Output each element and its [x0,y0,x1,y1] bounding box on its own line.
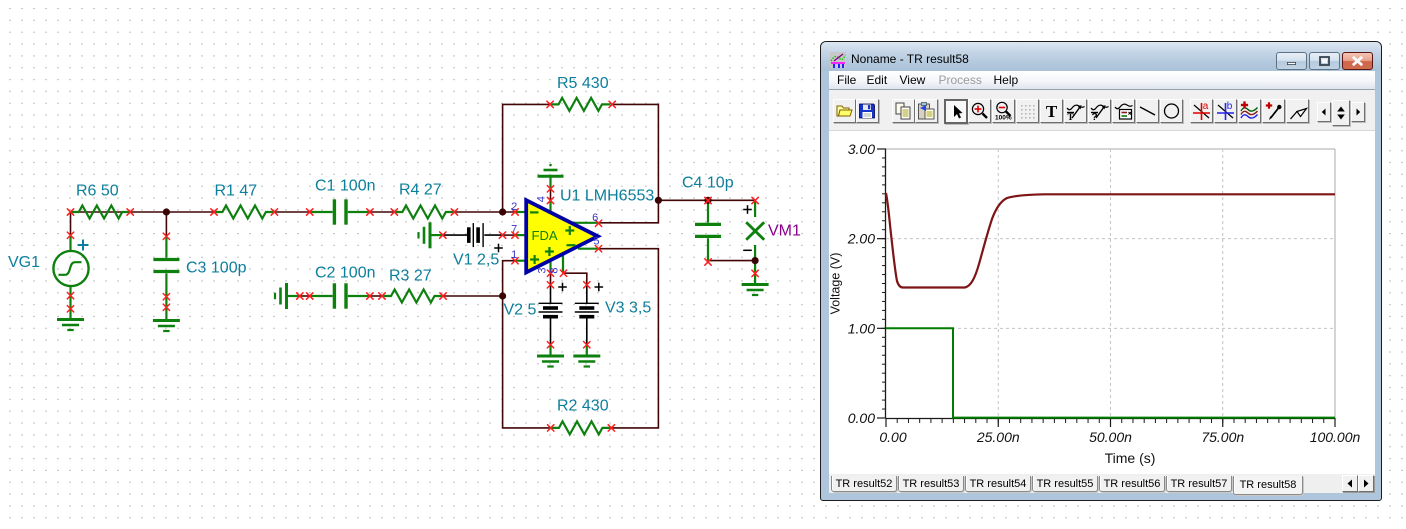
svg-text:0.00: 0.00 [848,410,875,426]
svg-text:100.00n: 100.00n [1310,429,1361,445]
svg-text:R3 27: R3 27 [389,268,432,285]
svg-text:C2 100n: C2 100n [315,265,376,282]
svg-text:b: b [1227,101,1233,112]
svg-text:5: 5 [593,236,599,248]
svg-text:R4 27: R4 27 [399,182,442,199]
svg-text:C4 10p: C4 10p [682,175,734,192]
svg-text:4: 4 [536,196,548,202]
svg-text:FDA: FDA [532,228,558,243]
svg-text:R2 430: R2 430 [557,398,609,415]
svg-text:6: 6 [592,212,598,224]
svg-text:2.00: 2.00 [847,231,875,247]
svg-text:?: ? [1091,112,1097,122]
svg-text:50.00n: 50.00n [1089,429,1132,445]
svg-text:0.00: 0.00 [879,429,906,445]
svg-text:Time (s): Time (s) [1105,450,1156,466]
svg-text:R5 430: R5 430 [557,75,609,92]
svg-text:3: 3 [536,267,548,273]
svg-text:R6 50: R6 50 [76,183,119,200]
svg-text:VM1: VM1 [768,223,801,240]
svg-text:U1 LMH6553: U1 LMH6553 [560,188,654,205]
svg-text:T: T [1046,102,1058,121]
svg-text:V2 5: V2 5 [504,302,537,319]
svg-text:8: 8 [548,267,560,273]
svg-text:100%: 100% [995,115,1012,122]
svg-text:C3 100p: C3 100p [186,260,247,277]
svg-text:2: 2 [511,201,517,213]
svg-text:25.00n: 25.00n [976,429,1020,445]
svg-text:VG1: VG1 [8,254,40,271]
svg-text:a: a [1203,101,1209,112]
svg-text:V3 3,5: V3 3,5 [605,300,651,317]
svg-text:7: 7 [511,224,517,236]
svg-text:Voltage (V): Voltage (V) [829,253,843,315]
svg-text:3.00: 3.00 [848,141,875,157]
svg-text:V1 2,5: V1 2,5 [453,252,499,269]
svg-text:T: T [1067,112,1073,122]
svg-text:75.00n: 75.00n [1201,429,1244,445]
svg-text:1: 1 [511,249,517,261]
svg-text:1.00: 1.00 [848,320,875,336]
svg-text:C1 100n: C1 100n [315,178,376,195]
svg-text:R1 47: R1 47 [215,183,258,200]
